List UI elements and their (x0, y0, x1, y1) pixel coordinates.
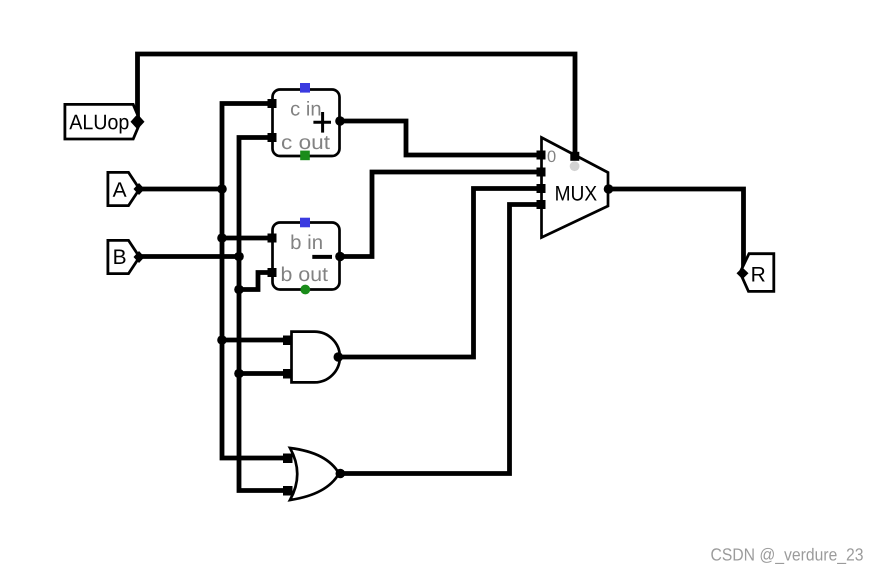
pin AND input 2 (283, 369, 293, 379)
input pin ALUop (65, 104, 145, 139)
OR gate (283, 448, 345, 500)
label c out (282, 136, 330, 149)
junction AND input 2 branch (234, 369, 244, 379)
pin OR input 1 (283, 454, 293, 464)
pin MUX input 2 (537, 184, 546, 193)
pin MUX input 3 (537, 200, 546, 209)
label c in (291, 101, 320, 116)
output dot (335, 252, 345, 262)
wire A stub (139, 187, 222, 192)
port marker blue (top) (300, 83, 310, 93)
wire net B vertical bus: c-out pin down to OR gate bottom input (239, 138, 287, 491)
wire b-out stub (239, 273, 272, 290)
pin c out (left) (268, 133, 277, 142)
MUX enable dot (gray) (570, 161, 580, 171)
subcircuit U2 subtractor (-) (268, 218, 345, 295)
output dot (334, 352, 344, 362)
plus symbol (313, 121, 331, 124)
input pin A (108, 172, 145, 205)
pin AND input 1 (283, 336, 293, 346)
wire net A vertical bus: c-in pin down to OR gate top input (222, 104, 287, 459)
wire MUX output to R (608, 189, 744, 270)
output pin R (737, 254, 774, 292)
pin MUX input 1 (537, 168, 546, 177)
port marker blue (top) (300, 218, 310, 228)
minus symbol (312, 255, 332, 259)
label MUX (556, 186, 597, 201)
pin b out (left) (268, 268, 277, 277)
output dot (336, 469, 346, 479)
pin MUX select (570, 152, 579, 161)
input pin B (108, 240, 145, 273)
port marker green (bottom) (300, 151, 310, 161)
wire subtractor output to MUX input 1 (340, 172, 541, 257)
wire AND input 1 stub (222, 338, 287, 343)
label b out (282, 267, 328, 282)
junction b-in branch (217, 233, 227, 243)
output dot (604, 184, 614, 194)
wire b-in stub (222, 236, 272, 241)
wire B stub (139, 254, 239, 259)
MUX U3 (537, 138, 614, 238)
wire AND input 2 stub (239, 371, 287, 376)
watermark (711, 548, 863, 564)
label 0 (548, 150, 556, 162)
junction AND input 1 branch (217, 335, 227, 345)
output dot (335, 116, 345, 126)
AND gate (283, 332, 343, 383)
wire OR output to MUX input 3 (340, 205, 541, 474)
port marker green circle (bottom) (300, 285, 310, 295)
pin b in (left) (268, 234, 277, 243)
subcircuit U1 adder (+) (268, 83, 345, 160)
junction A wire (217, 184, 227, 194)
pin c in (left) (268, 99, 277, 108)
junction b-out branch (234, 285, 244, 295)
junction B wire (234, 252, 244, 262)
pin MUX input 0 (537, 151, 546, 160)
wire AND output to MUX input 2 (338, 189, 541, 358)
label b in (291, 235, 321, 250)
pin OR input 2 (283, 486, 293, 496)
wire adder output to MUX input 0 (340, 121, 541, 155)
wire ALUop to MUX select (top route) (138, 54, 576, 155)
